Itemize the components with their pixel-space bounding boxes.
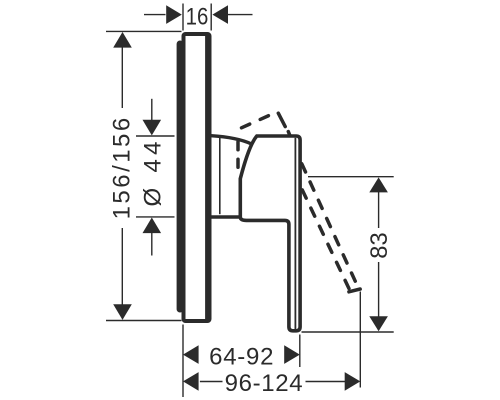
svg-text:16: 16 (186, 4, 209, 31)
svg-text:83: 83 (366, 232, 393, 258)
svg-text:96-124: 96-124 (225, 370, 303, 397)
svg-text:64-92: 64-92 (209, 344, 273, 371)
